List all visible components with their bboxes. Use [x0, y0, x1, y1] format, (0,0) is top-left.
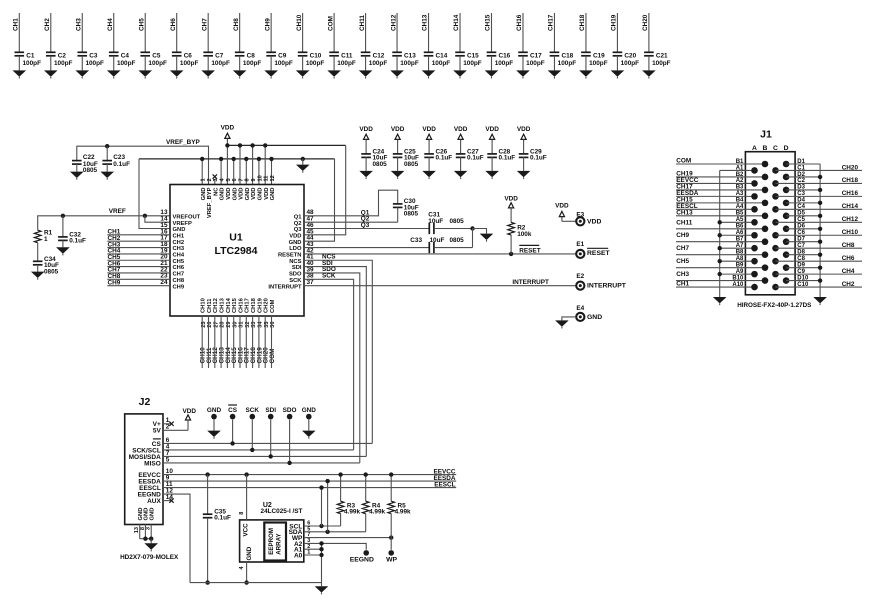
ground — [579, 70, 593, 78]
svg-text:GND: GND — [232, 188, 238, 201]
wire — [107, 247, 170, 249]
svg-text:100pF: 100pF — [23, 60, 42, 67]
capacitor C34 10uF 0805 — [33, 256, 59, 276]
svg-text:CH14: CH14 — [453, 14, 460, 31]
pin — [772, 219, 779, 226]
wire EESDA to SDA — [327, 481, 329, 532]
wire EESDA — [163, 480, 456, 482]
svg-text:A9: A9 — [736, 269, 744, 275]
svg-text:CH20: CH20 — [264, 298, 270, 313]
svg-text:24LC025-I /ST: 24LC025-I /ST — [261, 508, 303, 515]
junction — [718, 246, 722, 250]
svg-text:C: C — [773, 145, 778, 152]
svg-text:CH13: CH13 — [422, 14, 429, 31]
pin — [751, 258, 758, 265]
svg-text:SCK: SCK — [246, 407, 260, 414]
junction — [257, 157, 261, 161]
wire WP testpoint — [390, 538, 392, 550]
power VDD — [504, 195, 518, 222]
capacitor C15 100pF — [455, 52, 482, 70]
junction — [818, 214, 822, 218]
wire — [233, 316, 235, 368]
wire EESCL — [163, 487, 456, 489]
svg-text:CH1: CH1 — [13, 18, 20, 31]
svg-text:U1: U1 — [229, 232, 243, 244]
wire GND pins — [139, 525, 141, 539]
svg-text:100pF: 100pF — [495, 60, 514, 67]
pin — [772, 284, 779, 291]
svg-text:GND: GND — [173, 227, 186, 233]
svg-text:J1: J1 — [760, 129, 772, 141]
svg-text:1: 1 — [44, 236, 48, 243]
wire EEGND — [163, 494, 190, 582]
ground — [201, 70, 215, 78]
svg-text:RESET: RESET — [587, 250, 611, 257]
junction — [319, 541, 323, 545]
svg-text:LTC2984: LTC2984 — [215, 245, 258, 257]
svg-text:100pF: 100pF — [432, 60, 451, 67]
pin 6 CS — [152, 437, 170, 448]
wire VDD pin 45 — [304, 145, 346, 234]
pin 27 CH12 — [213, 298, 219, 328]
svg-text:VDD: VDD — [454, 126, 468, 133]
wire — [776, 169, 863, 171]
ground — [517, 171, 531, 179]
wire — [150, 539, 152, 544]
power VDD — [221, 124, 235, 145]
wire GND pin — [271, 159, 273, 185]
wire — [776, 247, 863, 249]
pin 6 GND — [232, 178, 238, 200]
junction — [230, 441, 234, 445]
svg-text:7: 7 — [238, 178, 244, 181]
svg-text:HD2X7-079-MOLEX: HD2X7-079-MOLEX — [120, 554, 179, 561]
pin 5 SDA — [289, 526, 311, 536]
junction — [718, 272, 722, 276]
svg-text:EESCL: EESCL — [434, 481, 455, 488]
pin column headers A B C D — [752, 145, 789, 152]
svg-text:A8: A8 — [736, 256, 744, 262]
ground — [485, 70, 499, 78]
svg-text:VDD: VDD — [587, 218, 601, 225]
wire — [776, 273, 863, 275]
junction — [818, 175, 822, 179]
wire CH14 — [459, 13, 461, 52]
svg-text:5V: 5V — [153, 428, 162, 435]
svg-text:C21: C21 — [656, 53, 668, 60]
ground — [144, 543, 158, 551]
wire — [786, 254, 820, 256]
capacitor C23 0.1uF — [102, 154, 130, 171]
pin — [751, 219, 758, 226]
wire CH19 — [616, 13, 618, 52]
capacitor C13 100pF — [392, 52, 419, 70]
junction — [238, 143, 242, 147]
wire — [720, 260, 755, 262]
capacitor C20 100pF — [613, 52, 640, 70]
svg-text:CH5: CH5 — [173, 259, 185, 265]
junction — [200, 157, 204, 161]
wire Q1 — [304, 190, 398, 216]
wire — [239, 316, 241, 368]
ground — [296, 70, 310, 78]
power VDD — [391, 126, 405, 154]
pin — [772, 206, 779, 213]
junction — [818, 252, 822, 256]
wire — [214, 316, 216, 368]
wire VDD pin — [239, 145, 241, 184]
junction — [105, 144, 109, 148]
pin 22 CH7 — [160, 266, 184, 277]
wire — [786, 228, 820, 230]
capacitor C25 10uF — [393, 148, 419, 171]
wire — [562, 317, 576, 321]
svg-text:VDD: VDD — [359, 126, 373, 133]
svg-text:SDI: SDI — [265, 407, 276, 414]
wire CH20 — [648, 13, 650, 52]
ground — [548, 70, 562, 78]
wire EESCL to SCL — [321, 488, 323, 526]
svg-text:RESET: RESET — [519, 247, 540, 254]
wire CH11 — [365, 13, 367, 52]
svg-text:GND: GND — [150, 508, 156, 521]
svg-text:100pF: 100pF — [526, 60, 545, 67]
wire GND pin 44 — [304, 159, 335, 241]
svg-text:B8: B8 — [736, 249, 744, 255]
junction — [319, 485, 323, 489]
wire — [776, 260, 863, 262]
svg-text:VDD: VDD — [289, 233, 301, 239]
svg-text:COM: COM — [327, 16, 334, 31]
pin — [783, 187, 790, 194]
wire — [246, 475, 248, 520]
ground — [100, 172, 114, 180]
junction — [143, 214, 147, 218]
capacitor C19 100pF — [581, 52, 608, 70]
svg-text:6: 6 — [232, 178, 238, 181]
wire — [321, 583, 323, 587]
svg-text:100pF: 100pF — [589, 60, 608, 67]
svg-text:CH5: CH5 — [138, 18, 145, 31]
pin 35 CH20 — [264, 298, 270, 328]
no-connect pin 1 — [163, 422, 174, 426]
svg-text:CH14: CH14 — [226, 297, 232, 313]
svg-text:CH4: CH4 — [107, 18, 114, 31]
wire COM — [333, 13, 335, 52]
svg-text:C3: C3 — [89, 53, 98, 60]
svg-text:C12: C12 — [373, 53, 385, 60]
ground — [13, 70, 27, 78]
svg-text:4.99k: 4.99k — [395, 509, 411, 516]
svg-text:NC: NC — [213, 187, 219, 196]
wire J1 right ground rail — [819, 164, 821, 297]
pin 40 SDI — [292, 260, 314, 271]
svg-text:B5: B5 — [736, 211, 744, 217]
pin 45 VDD — [289, 228, 314, 239]
ground — [813, 297, 827, 305]
svg-text:100pF: 100pF — [85, 60, 104, 67]
svg-text:100pF: 100pF — [148, 60, 167, 67]
pin 3 NC — [213, 178, 219, 196]
ground — [422, 171, 436, 179]
pin 7 VDD — [238, 178, 244, 199]
pin 7 WP — [292, 532, 311, 542]
svg-text:C2: C2 — [58, 53, 67, 60]
wire VREFP branch — [145, 216, 170, 222]
connector J1 — [745, 129, 795, 295]
pin — [762, 161, 769, 168]
svg-text:SDO: SDO — [289, 272, 302, 278]
svg-text:COM: COM — [269, 349, 276, 364]
wire Q3 — [304, 228, 429, 230]
svg-text:GND: GND — [587, 314, 602, 321]
svg-text:A1: A1 — [736, 165, 744, 171]
pin — [751, 271, 758, 278]
wire — [786, 215, 820, 217]
junction — [325, 530, 329, 534]
wire A1 — [304, 548, 322, 550]
svg-text:3: 3 — [213, 178, 219, 181]
capacitor C6 100pF — [172, 52, 199, 70]
pin 1 A0 — [294, 550, 310, 560]
wire J1 left ground rail — [719, 170, 721, 297]
capacitor C31 10uF 0805 — [428, 212, 464, 235]
svg-text:100pF: 100pF — [117, 60, 136, 67]
testpoint EEGND — [350, 550, 374, 563]
capacitor C5 100pF — [140, 52, 167, 70]
ground — [611, 70, 625, 78]
pin 18 CH3 — [160, 241, 184, 252]
svg-text:2: 2 — [166, 424, 170, 431]
svg-text:CH4: CH4 — [173, 253, 185, 259]
junction — [225, 143, 229, 147]
wire CH7 — [207, 13, 209, 52]
pin 15 GND — [160, 222, 185, 233]
pin 5 MISO — [144, 456, 170, 467]
capacitor C35 0.1uF — [203, 508, 231, 582]
wire VREF_BYP — [77, 146, 209, 184]
ground — [359, 70, 373, 78]
testpoint GND — [207, 407, 222, 420]
junction — [718, 220, 722, 224]
svg-text:CH18: CH18 — [251, 297, 257, 313]
ground — [302, 419, 316, 438]
svg-text:VDD: VDD — [239, 188, 245, 200]
wire — [246, 562, 248, 583]
svg-text:A2: A2 — [736, 178, 744, 184]
pin 42 RESETN — [278, 247, 314, 258]
svg-text:MISO: MISO — [144, 460, 161, 467]
svg-text:VDD: VDD — [504, 195, 518, 202]
svg-text:RESETN: RESETN — [278, 253, 302, 259]
capacitor C10 100pF — [298, 52, 325, 70]
pin — [783, 277, 790, 284]
ground — [390, 70, 404, 78]
capacitor C22 10uF 0805 — [72, 154, 98, 174]
svg-text:COM: COM — [270, 299, 276, 313]
junction — [61, 214, 65, 218]
wire — [107, 278, 170, 280]
pin 11 EESCL — [139, 481, 173, 492]
pin 28 CH13 — [220, 297, 226, 327]
testpoint GND — [302, 407, 317, 420]
svg-text:0805: 0805 — [404, 161, 419, 168]
svg-text:CH15: CH15 — [485, 14, 492, 31]
svg-text:100pF: 100pF — [621, 60, 640, 67]
svg-text:5: 5 — [166, 456, 170, 463]
svg-text:8: 8 — [239, 512, 245, 515]
pin 13 VREFOUT — [160, 209, 200, 220]
svg-text:100pF: 100pF — [400, 60, 419, 67]
pin — [762, 238, 769, 245]
svg-text:CH7: CH7 — [173, 272, 185, 278]
junction — [818, 188, 822, 192]
svg-text:C18: C18 — [561, 53, 573, 60]
svg-text:VDD: VDD — [226, 188, 232, 200]
wire — [786, 189, 820, 191]
svg-text:C6: C6 — [184, 53, 193, 60]
capacitor C14 100pF — [424, 52, 451, 70]
capacitor C33 10uF 0805 — [410, 237, 464, 253]
power VDD — [182, 408, 196, 430]
svg-text:CH16: CH16 — [238, 297, 244, 313]
svg-text:CH9: CH9 — [676, 232, 689, 239]
wire — [676, 182, 755, 184]
svg-text:B10: B10 — [732, 275, 744, 281]
wire MOSI/SDA — [163, 455, 366, 457]
pin — [783, 213, 790, 220]
svg-text:SDO: SDO — [283, 407, 297, 414]
svg-text:B7: B7 — [736, 237, 744, 243]
pin 4 GND — [239, 566, 245, 570]
pin — [772, 180, 779, 187]
wire CH1 — [18, 13, 20, 52]
wire to ground — [473, 229, 487, 234]
wire — [720, 273, 755, 275]
svg-text:0805: 0805 — [373, 161, 388, 168]
svg-text:11: 11 — [264, 176, 270, 182]
wire — [252, 316, 254, 368]
svg-text:B1: B1 — [736, 159, 744, 165]
svg-text:C20: C20 — [624, 53, 636, 60]
ground — [296, 159, 310, 173]
wire — [251, 420, 253, 450]
junction — [250, 143, 254, 147]
wire — [562, 220, 576, 222]
svg-text:ARRAY: ARRAY — [276, 532, 283, 554]
wire GND bus — [139, 158, 335, 160]
pin — [772, 271, 779, 278]
pin 41 NCS — [289, 254, 314, 265]
resistor R2 100k — [508, 222, 532, 254]
wire — [786, 176, 820, 178]
svg-text:VREFP: VREFP — [173, 221, 192, 227]
svg-text:C8: C8 — [247, 53, 256, 60]
capacitor C2 100pF — [46, 52, 73, 70]
svg-text:D: D — [784, 145, 789, 152]
wire MISO — [163, 462, 360, 464]
wire — [107, 266, 170, 268]
junction — [143, 537, 147, 541]
svg-text:C33: C33 — [410, 237, 422, 244]
svg-text:100pF: 100pF — [306, 60, 325, 67]
wire — [786, 241, 820, 243]
capacitor C7 100pF — [203, 52, 230, 70]
power VDD — [454, 126, 468, 154]
svg-text:A6: A6 — [736, 230, 744, 236]
svg-text:0.1uF: 0.1uF — [69, 238, 86, 245]
svg-text:100pF: 100pF — [369, 60, 388, 67]
pin 16 CH1 — [160, 228, 184, 239]
wire CS — [163, 442, 372, 444]
capacitor C17 100pF — [518, 52, 545, 70]
svg-text:A0: A0 — [294, 552, 303, 559]
svg-text:CH17: CH17 — [245, 298, 251, 313]
svg-text:B4: B4 — [736, 198, 744, 204]
wire — [245, 316, 247, 368]
capacitor C32 0.1uF — [58, 231, 86, 247]
pin 3 A2 — [294, 538, 310, 548]
svg-text:2: 2 — [207, 178, 213, 181]
svg-text:CH9: CH9 — [173, 284, 185, 290]
wire CH5 — [144, 13, 146, 52]
pin 17 CH2 — [160, 235, 184, 246]
junction — [509, 252, 513, 256]
testpoint E1 RESET — [576, 241, 610, 258]
pin — [772, 232, 779, 239]
wire CH17 — [553, 13, 555, 52]
wire INTERRUPT — [304, 285, 576, 287]
svg-text:CH11: CH11 — [207, 298, 213, 313]
wire CH15 — [491, 13, 493, 52]
svg-text:CH18: CH18 — [579, 14, 586, 31]
wire SDO — [304, 273, 360, 463]
wire — [289, 420, 291, 463]
pin — [751, 284, 758, 291]
svg-text:WP: WP — [386, 557, 397, 564]
junction — [205, 472, 209, 476]
ground — [391, 171, 405, 179]
svg-text:0805: 0805 — [404, 211, 419, 218]
wire — [107, 240, 170, 242]
svg-text:9: 9 — [251, 178, 257, 181]
svg-text:4: 4 — [239, 566, 245, 570]
svg-text:CH2: CH2 — [44, 18, 51, 31]
svg-text:0.1uF: 0.1uF — [436, 155, 453, 162]
pin 31 CH16 — [238, 297, 244, 327]
ground — [70, 172, 84, 180]
wire WP — [304, 537, 391, 539]
ground — [264, 70, 278, 78]
wire VDD pin — [226, 145, 228, 184]
pin 37 INTERRUPT — [268, 279, 314, 290]
wire — [264, 316, 266, 368]
wire — [676, 176, 765, 178]
wire CH12 — [396, 13, 398, 52]
svg-text:100pF: 100pF — [180, 60, 199, 67]
junction — [389, 472, 393, 476]
wire — [258, 316, 260, 368]
capacitor C9 100pF — [266, 52, 293, 70]
ground — [480, 234, 494, 242]
svg-text:CH20: CH20 — [642, 14, 649, 31]
capacitor C18 100pF — [550, 52, 577, 70]
svg-text:A10: A10 — [732, 282, 744, 288]
pin — [751, 245, 758, 252]
junction — [470, 226, 474, 230]
svg-text:5: 5 — [226, 178, 232, 181]
junction — [232, 157, 236, 161]
